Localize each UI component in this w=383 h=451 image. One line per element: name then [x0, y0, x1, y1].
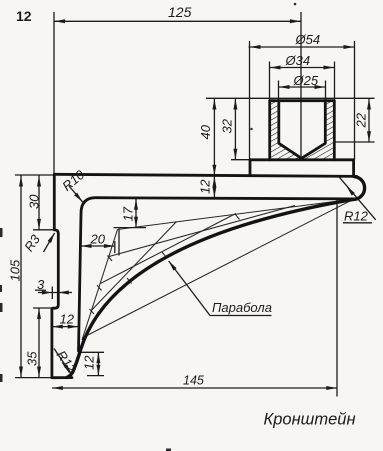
svg-text:Ø25: Ø25: [293, 73, 319, 88]
svg-text:125: 125: [168, 4, 192, 20]
svg-text:Ø54: Ø54: [295, 32, 321, 47]
svg-text:32: 32: [220, 118, 235, 133]
svg-text:20: 20: [90, 232, 106, 247]
svg-text:12: 12: [198, 179, 213, 194]
svg-text:12: 12: [82, 355, 97, 370]
svg-text:40: 40: [198, 124, 213, 139]
svg-text:R3: R3: [21, 231, 43, 254]
svg-text:12: 12: [60, 312, 75, 327]
svg-text:145: 145: [183, 374, 204, 388]
svg-text:R10: R10: [59, 166, 88, 193]
svg-text:17: 17: [121, 206, 136, 221]
svg-text:12: 12: [16, 8, 32, 24]
svg-text:Ø34: Ø34: [285, 53, 311, 68]
svg-text:3: 3: [37, 277, 45, 292]
svg-text:30: 30: [27, 194, 42, 209]
svg-text:105: 105: [7, 259, 22, 281]
svg-text:22: 22: [354, 112, 369, 128]
svg-text:35: 35: [25, 351, 40, 366]
svg-text:R12: R12: [54, 348, 80, 377]
svg-text:R12: R12: [344, 209, 369, 224]
svg-text:Парабола: Парабола: [212, 300, 272, 315]
svg-text:Кронштейн: Кронштейн: [264, 411, 356, 429]
